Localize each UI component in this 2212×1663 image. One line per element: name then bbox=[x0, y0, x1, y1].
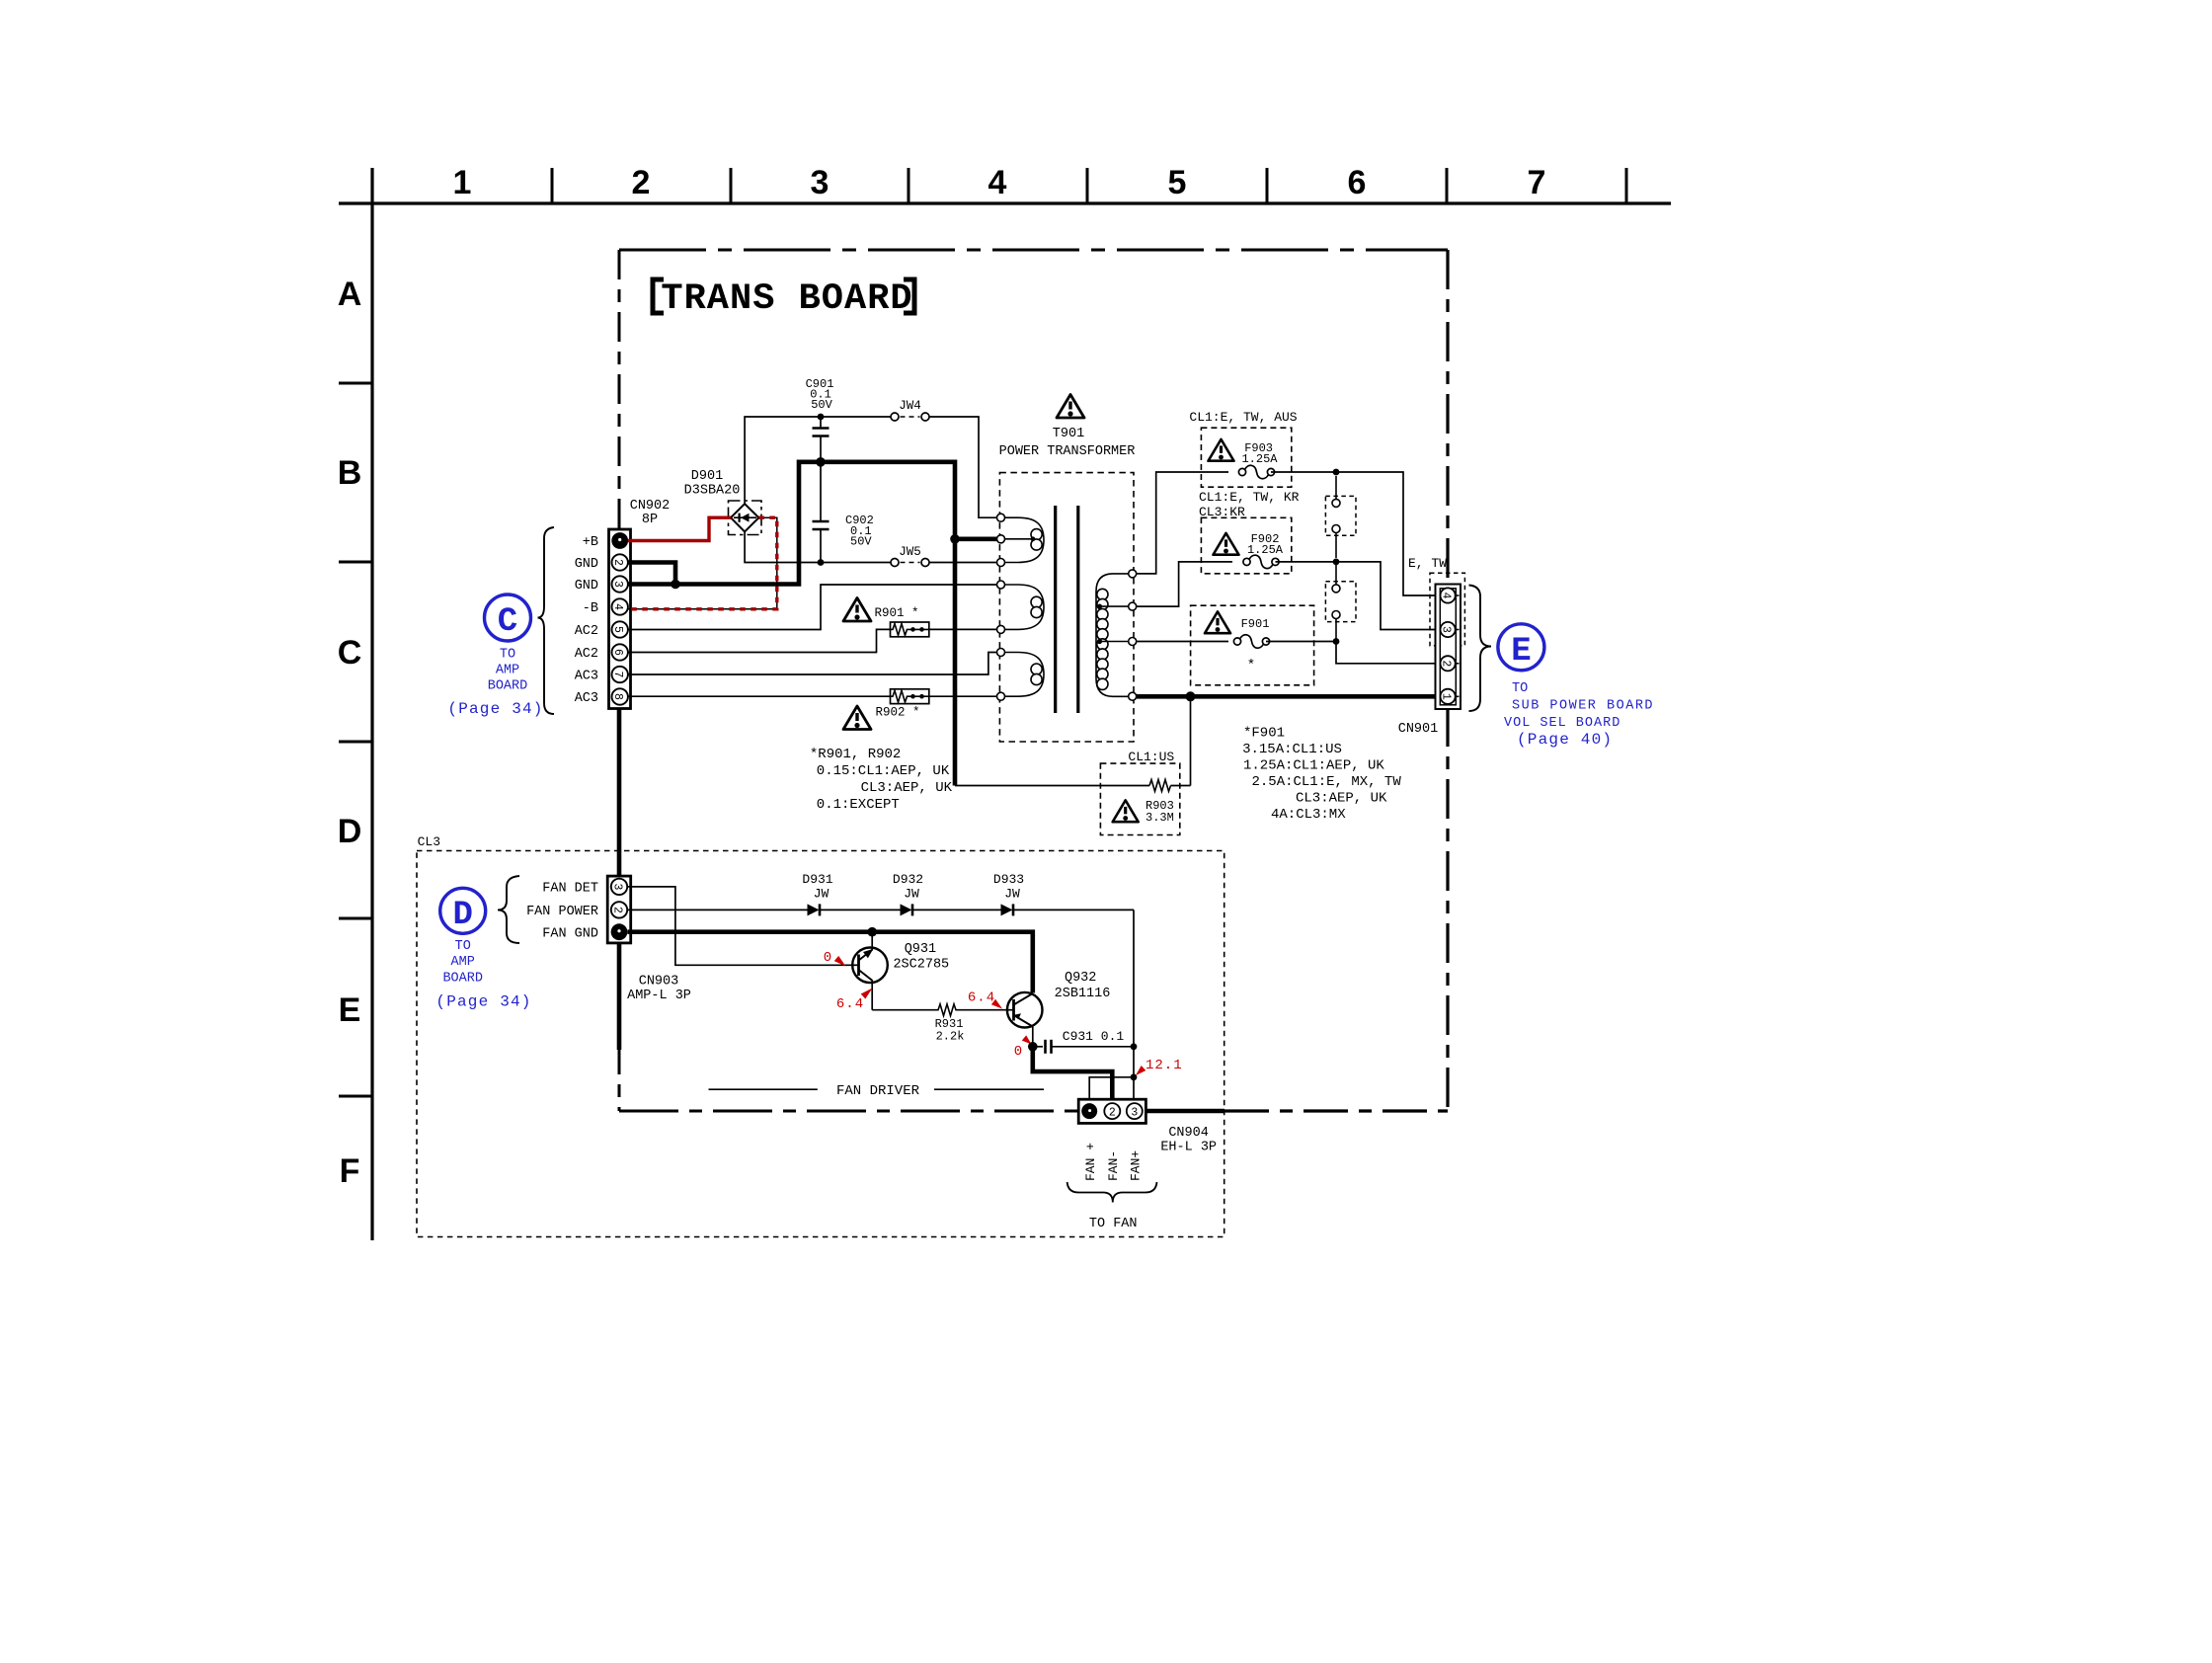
svg-text:FAN POWER: FAN POWER bbox=[526, 905, 598, 919]
svg-text:FAN-: FAN- bbox=[1106, 1150, 1121, 1181]
svg-text:D931: D931 bbox=[802, 872, 832, 887]
svg-text:FAN DRIVER: FAN DRIVER bbox=[836, 1083, 920, 1099]
wire +B (red) CN902 pin1 to bridge bbox=[628, 517, 731, 540]
svg-text:VOL SEL BOARD: VOL SEL BOARD bbox=[1504, 716, 1620, 731]
diode D932 JW bbox=[893, 872, 923, 915]
svg-text:1: 1 bbox=[453, 164, 472, 201]
TRANS BOARD title bbox=[653, 278, 914, 320]
wire -B (red dashed) bridge to CN902 pin4 bbox=[628, 517, 777, 609]
svg-text:4: 4 bbox=[988, 164, 1007, 201]
junction secondary bottom / R903 bbox=[1186, 691, 1196, 701]
svg-text:GND: GND bbox=[575, 579, 598, 594]
CN902 pin 5 (AC2) bbox=[611, 621, 628, 637]
svg-text:BOARD: BOARD bbox=[488, 679, 528, 694]
svg-text:0.15:CL1:AEP, UK: 0.15:CL1:AEP, UK bbox=[817, 763, 950, 779]
svg-text:BOARD: BOARD bbox=[442, 972, 483, 987]
svg-text:8P: 8P bbox=[642, 513, 658, 527]
resistor R901 (fusible) bbox=[874, 606, 928, 637]
svg-text:TO: TO bbox=[1512, 681, 1528, 696]
jumper JW4 bbox=[891, 399, 929, 421]
CN904 pin 1 (FAN +) bbox=[1081, 1103, 1097, 1119]
svg-text:CL1:US: CL1:US bbox=[1128, 750, 1174, 764]
junction F901 branch bbox=[1333, 638, 1340, 645]
wire JW5 to transformer pin3 bbox=[929, 562, 997, 564]
red voltage 0 at Q931 base bbox=[824, 950, 846, 967]
resistor R902 (fusible) bbox=[875, 689, 928, 720]
wire secondary tap to F902 bbox=[1137, 562, 1232, 606]
svg-text:FAN +: FAN + bbox=[1083, 1143, 1098, 1181]
svg-text:(Page 40): (Page 40) bbox=[1517, 731, 1613, 749]
brace for CN903 to AMP BOARD bbox=[498, 876, 519, 943]
svg-text:0: 0 bbox=[1014, 1044, 1022, 1060]
svg-text:1.25A:CL1:AEP, UK: 1.25A:CL1:AEP, UK bbox=[1243, 758, 1384, 774]
grid ruler top line bbox=[339, 201, 1671, 204]
variant dashed box CN901 pins 4-3 bbox=[1430, 573, 1464, 646]
svg-text:2: 2 bbox=[1109, 1107, 1116, 1120]
svg-text:3: 3 bbox=[611, 883, 624, 890]
brace TO FAN bbox=[1067, 1182, 1157, 1203]
capacitor C902 bbox=[813, 462, 874, 563]
svg-text:12.1: 12.1 bbox=[1145, 1058, 1183, 1073]
CN904 vertical pin labels bbox=[1083, 1143, 1144, 1181]
connector CN904 bbox=[1078, 1099, 1145, 1123]
CN902 pin 4 (-B) bbox=[611, 598, 628, 614]
diode D931 JW bbox=[802, 872, 832, 915]
svg-text:TO: TO bbox=[500, 648, 515, 663]
CN902 label bbox=[630, 499, 671, 527]
TRANS BOARD border right lower bbox=[1446, 707, 1449, 1111]
svg-text:CL3:AEP, UK: CL3:AEP, UK bbox=[1296, 791, 1387, 807]
svg-text:D: D bbox=[338, 813, 362, 850]
CN903 pin 3 (FAN DET) bbox=[611, 879, 628, 895]
svg-text:3: 3 bbox=[611, 581, 624, 588]
CN904 label bbox=[1160, 1126, 1217, 1155]
wire GND thick net (CN902 pin3/pin2) bbox=[628, 462, 997, 786]
svg-text:CL1:E, TW, KR: CL1:E, TW, KR bbox=[1199, 490, 1300, 505]
svg-text:2SB1116: 2SB1116 bbox=[1055, 987, 1111, 1001]
TRANS BOARD border bottom right bbox=[1145, 1109, 1224, 1114]
CN902 pin labels bbox=[575, 535, 598, 706]
TRANS BOARD border left upper bbox=[618, 250, 621, 529]
wire FAN GND thick bbox=[628, 932, 1033, 993]
svg-text:CN902: CN902 bbox=[630, 499, 671, 514]
svg-text:1.25A: 1.25A bbox=[1241, 452, 1278, 466]
svg-text:JW: JW bbox=[904, 887, 919, 902]
CN902 pin 8 (AC3) bbox=[611, 688, 628, 704]
CN902 pin 6 (AC2) bbox=[611, 644, 628, 660]
resistor R931 2.2k bbox=[935, 1004, 965, 1044]
svg-text:3.15A:CL1:US: 3.15A:CL1:US bbox=[1242, 742, 1342, 757]
CL3 variant dashed box bbox=[417, 834, 1224, 1237]
svg-text:E, TW: E, TW bbox=[1408, 556, 1447, 571]
svg-text:AMP: AMP bbox=[496, 664, 519, 678]
CN904 pin 3 (FAN+) bbox=[1127, 1103, 1143, 1119]
svg-text:0.1:EXCEPT: 0.1:EXCEPT bbox=[817, 797, 900, 813]
wire AC3 pin8 through R902 to transformer pin7 bbox=[628, 695, 997, 697]
grid ruler left line bbox=[370, 168, 373, 1240]
junction C902 bottom bbox=[818, 559, 825, 566]
svg-text:5: 5 bbox=[1168, 164, 1187, 201]
variant jumper box E/TW/KR upper bbox=[1325, 476, 1356, 558]
svg-text:TO FAN: TO FAN bbox=[1089, 1217, 1138, 1231]
grid column ticks bbox=[552, 168, 1626, 203]
wire secondary tap to F901 bbox=[1137, 641, 1228, 643]
svg-text:6.4: 6.4 bbox=[968, 990, 995, 1006]
red voltage 6.4 at Q931 emitter bbox=[836, 989, 873, 1013]
svg-text:E: E bbox=[1511, 633, 1531, 671]
CN904 pin 2 (FAN-) bbox=[1104, 1103, 1120, 1119]
CN903 label bbox=[627, 975, 691, 1004]
svg-text:D932: D932 bbox=[893, 872, 923, 887]
wire bridge top to C901 node and JW4 bbox=[745, 417, 891, 504]
junction F903 branch bbox=[1333, 469, 1340, 476]
FAN DRIVER label with rules bbox=[709, 1083, 1045, 1099]
svg-text:-B: -B bbox=[583, 601, 598, 616]
wire GND to R903 to secondary bottom bbox=[955, 696, 1191, 791]
bridge rectifier D901 D3SBA20 bbox=[684, 469, 761, 535]
wire 12.1 node to CN904 pins 1,3 bbox=[1089, 1047, 1134, 1105]
CN902 pin 7 (AC3) bbox=[611, 667, 628, 682]
svg-text:3: 3 bbox=[811, 164, 829, 201]
transistor Q931 2SC2785 bbox=[852, 932, 949, 1010]
svg-text:T901: T901 bbox=[1053, 427, 1084, 441]
svg-text:3: 3 bbox=[1131, 1107, 1138, 1120]
note F901 values bbox=[1242, 726, 1401, 824]
junction Q932/C931 bbox=[1028, 1042, 1038, 1052]
label CL1:E,TW,KR CL3:KR bbox=[1199, 490, 1300, 519]
junction FAN GND / Q931 collector bbox=[867, 927, 877, 937]
svg-text:3.3M: 3.3M bbox=[1145, 811, 1174, 825]
svg-text:50V: 50V bbox=[811, 398, 832, 412]
wire FAN POWER through D931-D933 bbox=[628, 910, 1135, 1046]
wire F903 to CN901 pin4 bbox=[1271, 472, 1442, 595]
TRANS BOARD border left lower bbox=[617, 943, 622, 1050]
svg-text:JW: JW bbox=[814, 887, 829, 902]
CN901 pin 1 bbox=[1440, 689, 1460, 704]
svg-text:D901: D901 bbox=[691, 469, 723, 484]
svg-text:B: B bbox=[338, 454, 362, 492]
wire AC3 pin7 to transformer pin6 bbox=[628, 653, 997, 675]
CN903 pin labels bbox=[526, 882, 598, 942]
svg-text:6.4: 6.4 bbox=[836, 996, 864, 1012]
svg-text:AC3: AC3 bbox=[575, 670, 598, 684]
svg-text:F: F bbox=[340, 1152, 360, 1190]
capacitor C931 0.1 bbox=[1033, 1029, 1134, 1054]
svg-text:CL3: CL3 bbox=[418, 834, 440, 849]
node E (to SUB POWER BOARD / VOL SEL BOARD page 40) bbox=[1498, 624, 1654, 749]
wire secondary pin to F903 bbox=[1137, 472, 1228, 574]
svg-text:TRANS BOARD: TRANS BOARD bbox=[661, 278, 912, 320]
svg-text:2: 2 bbox=[1440, 660, 1453, 667]
svg-text:F901: F901 bbox=[1241, 617, 1270, 631]
fuse F903 1.25A bbox=[1189, 410, 1297, 487]
wire F902 to CN901 pin3 bbox=[1276, 562, 1442, 630]
svg-text:C: C bbox=[498, 603, 517, 641]
svg-text:D: D bbox=[452, 897, 472, 934]
svg-text:4: 4 bbox=[1440, 593, 1453, 599]
grid column numbers bbox=[453, 164, 1546, 201]
svg-text:CN904: CN904 bbox=[1168, 1126, 1209, 1141]
jumper JW5 bbox=[891, 545, 929, 567]
CN902 pin 2 (GND) bbox=[611, 554, 628, 570]
svg-text:D3SBA20: D3SBA20 bbox=[684, 484, 741, 499]
transformer T901 POWER TRANSFORMER bbox=[997, 427, 1137, 742]
svg-text:*R901, R902: *R901, R902 bbox=[810, 747, 901, 762]
connector CN901 bbox=[1436, 585, 1461, 710]
CN901 pin 4 bbox=[1440, 588, 1460, 602]
svg-text:C931 0.1: C931 0.1 bbox=[1063, 1029, 1125, 1044]
CN902 pin 3 (GND) bbox=[611, 576, 628, 592]
svg-text:TO: TO bbox=[455, 939, 471, 954]
svg-text:AMP-L 3P: AMP-L 3P bbox=[627, 989, 691, 1003]
svg-text:D933: D933 bbox=[993, 872, 1024, 887]
svg-text:4: 4 bbox=[611, 603, 624, 610]
svg-text:5: 5 bbox=[611, 626, 624, 633]
svg-text:*: * bbox=[1247, 658, 1255, 673]
CN903 pin 1 (FAN GND) bbox=[611, 923, 628, 940]
grid row ticks bbox=[339, 383, 372, 1096]
CN903 pin 2 (FAN POWER) bbox=[611, 902, 628, 917]
junction C931/D933 line bbox=[1131, 1043, 1138, 1050]
svg-text:CN901: CN901 bbox=[1398, 722, 1439, 737]
connector CN903 bbox=[607, 876, 631, 943]
svg-text:AMP: AMP bbox=[451, 955, 475, 970]
svg-text:CN903: CN903 bbox=[639, 975, 679, 990]
svg-text:CL1:E, TW, AUS: CL1:E, TW, AUS bbox=[1189, 410, 1297, 425]
svg-text:7: 7 bbox=[1528, 164, 1546, 201]
TRANS BOARD border left mid (solid wire overlap) bbox=[617, 708, 622, 876]
wire FAN DET to Q931 base bbox=[628, 887, 853, 965]
svg-text:2: 2 bbox=[611, 559, 624, 566]
brace for CN902 to AMP BOARD bbox=[538, 527, 555, 714]
wire bridge bottom to JW5 bbox=[745, 531, 891, 562]
svg-text:2.2k: 2.2k bbox=[936, 1030, 965, 1044]
svg-text:Q931: Q931 bbox=[905, 942, 936, 957]
svg-text:2SC2785: 2SC2785 bbox=[893, 958, 949, 973]
svg-text:C: C bbox=[338, 634, 362, 672]
TRANS BOARD border top bbox=[619, 249, 1448, 252]
TRANS BOARD border right upper bbox=[1446, 250, 1449, 585]
svg-text:+B: +B bbox=[583, 535, 598, 550]
svg-text:AC2: AC2 bbox=[575, 624, 598, 639]
svg-text:4A:CL3:MX: 4A:CL3:MX bbox=[1271, 807, 1346, 823]
wire AC2 pin5 to transformer pin4 bbox=[628, 585, 997, 630]
svg-text:E: E bbox=[339, 991, 361, 1029]
CN901 pin 2 bbox=[1440, 656, 1460, 671]
svg-text:Q932: Q932 bbox=[1065, 971, 1096, 986]
fuse F901 bbox=[1191, 605, 1314, 685]
junction C901 top bbox=[818, 414, 825, 421]
svg-text:8: 8 bbox=[611, 693, 624, 700]
node C (to AMP BOARD page 34) bbox=[447, 594, 543, 718]
note R901 R902 values bbox=[810, 747, 953, 813]
svg-text:CL3:AEP, UK: CL3:AEP, UK bbox=[861, 780, 953, 796]
svg-text:7: 7 bbox=[611, 672, 624, 678]
wire secondary bottom thick to CN901 pin1 bbox=[1137, 694, 1442, 699]
svg-text:2.5A:CL1:E, MX, TW: 2.5A:CL1:E, MX, TW bbox=[1252, 774, 1402, 790]
svg-text:JW4: JW4 bbox=[899, 399, 921, 413]
capacitor C901 bbox=[806, 377, 834, 460]
svg-text:*F901: *F901 bbox=[1243, 726, 1285, 742]
warning triangle R901 bbox=[843, 598, 871, 622]
svg-text:POWER TRANSFORMER: POWER TRANSFORMER bbox=[999, 444, 1136, 459]
svg-text:(Page 34): (Page 34) bbox=[447, 700, 543, 718]
red voltage 6.4 at Q932 base bbox=[968, 990, 1002, 1009]
svg-text:FAN+: FAN+ bbox=[1129, 1150, 1144, 1181]
svg-text:A: A bbox=[338, 276, 362, 313]
node D (to AMP BOARD page 34) bbox=[435, 888, 531, 1010]
svg-text:6: 6 bbox=[611, 649, 624, 656]
CN902 pin 1 (+B) bbox=[611, 532, 628, 549]
grid row letters bbox=[338, 276, 362, 1190]
brace CN901 to node E bbox=[1469, 586, 1492, 712]
svg-text:2: 2 bbox=[632, 164, 651, 201]
svg-text:1: 1 bbox=[1440, 693, 1453, 700]
svg-text:(Page 34): (Page 34) bbox=[435, 993, 531, 1011]
svg-text:R901 *: R901 * bbox=[874, 606, 918, 620]
svg-text:JW: JW bbox=[1004, 887, 1020, 902]
transistor Q932 2SB1116 bbox=[1007, 971, 1110, 1047]
wire Q932 emitter thick to CN904 pin2 bbox=[1033, 1047, 1113, 1105]
svg-text:EH-L 3P: EH-L 3P bbox=[1160, 1141, 1217, 1155]
wire AC2 pin6 through R901 to transformer pin5 bbox=[628, 629, 997, 652]
wire R931 to Q932 base bbox=[958, 1009, 1007, 1011]
wire Q931 emitter to R931 bbox=[872, 1009, 936, 1011]
junction 12.1 node bbox=[1131, 1073, 1138, 1080]
diode D933 JW bbox=[993, 872, 1024, 915]
warning triangle T901 bbox=[1057, 395, 1084, 419]
connector CN902 bbox=[609, 529, 631, 709]
warning triangle R902 bbox=[843, 706, 871, 730]
svg-text:AC2: AC2 bbox=[575, 647, 598, 662]
junction GND pin2/pin3 bbox=[671, 580, 680, 590]
wire F901 to CN901 pin2 bbox=[1266, 642, 1442, 664]
svg-text:JW5: JW5 bbox=[899, 545, 921, 559]
red voltage 0 at Q932 emitter bbox=[1014, 1035, 1032, 1060]
junction F902 branch bbox=[1333, 559, 1340, 566]
svg-text:GND: GND bbox=[575, 557, 598, 572]
red voltage 12.1 bbox=[1136, 1058, 1183, 1075]
svg-text:R902 *: R902 * bbox=[875, 706, 919, 720]
svg-text:2: 2 bbox=[611, 907, 624, 913]
resistor R903 3.3M bbox=[1100, 750, 1179, 835]
svg-text:AC3: AC3 bbox=[575, 691, 598, 706]
svg-text:0: 0 bbox=[824, 950, 831, 966]
svg-text:FAN GND: FAN GND bbox=[542, 926, 598, 941]
TRANS BOARD border bottom left bbox=[619, 1110, 1078, 1113]
svg-text:FAN DET: FAN DET bbox=[542, 882, 598, 897]
junction GND C901/C902 bbox=[816, 457, 826, 467]
wire JW4 to transformer pin1 bbox=[929, 417, 997, 517]
svg-text:50V: 50V bbox=[850, 535, 872, 549]
variant jumper box lower bbox=[1325, 565, 1356, 641]
svg-text:6: 6 bbox=[1348, 164, 1367, 201]
CN901 pin 3 bbox=[1440, 622, 1460, 637]
junction GND transformer tap bbox=[950, 534, 960, 544]
svg-text:3: 3 bbox=[1440, 626, 1453, 633]
svg-text:SUB POWER BOARD: SUB POWER BOARD bbox=[1512, 699, 1654, 714]
fuse F902 1.25A bbox=[1201, 517, 1291, 574]
